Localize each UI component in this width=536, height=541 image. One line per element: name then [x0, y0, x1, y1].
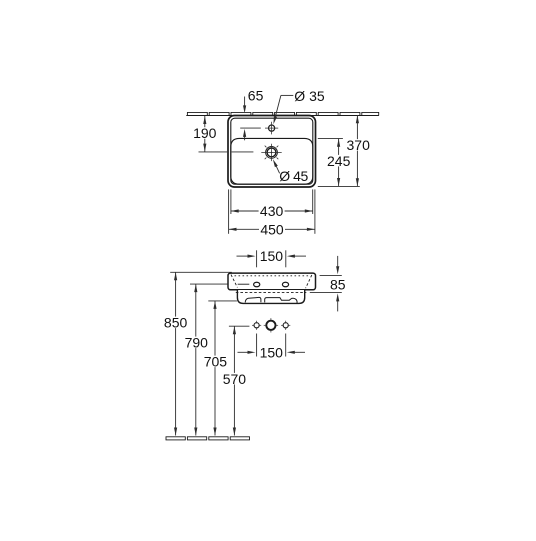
tap hole crosshair: [265, 127, 278, 129]
dimension 150 (mounting holes): [256, 334, 258, 357]
hidden underside line: [236, 291, 306, 293]
drain circle: [267, 148, 276, 157]
svg-text:Ø 45: Ø 45: [279, 168, 308, 184]
svg-text:430: 430: [260, 203, 284, 219]
bowl outline: [231, 138, 313, 184]
svg-text:65: 65: [248, 88, 264, 104]
dimension 450: [229, 228, 315, 230]
mounting hole right: [283, 323, 288, 328]
mounting hole center crosshair: [264, 324, 266, 326]
label Ø 35 leader: [281, 94, 293, 96]
tap hole extension line: [240, 127, 261, 129]
wall line (top view): [186, 115, 379, 117]
siphon tab left: [245, 297, 261, 302]
basin inner rim edge: [231, 118, 313, 184]
drain extension line: [199, 151, 228, 153]
siphon tab right: [265, 298, 297, 304]
dimension 370: [356, 115, 358, 186]
drain crosshair: [261, 151, 281, 153]
dimension 705: [214, 301, 216, 436]
extension line at underbody bottom (705): [208, 300, 237, 302]
svg-text:190: 190: [193, 125, 217, 141]
drain diagonal tick marks: [277, 158, 279, 160]
svg-text:705: 705: [204, 353, 228, 369]
svg-text:150: 150: [260, 345, 284, 361]
extension line at fixing hole level (790): [190, 283, 228, 285]
svg-text:850: 850: [164, 314, 188, 330]
mounting hole right crosshair: [281, 324, 284, 326]
tap hole circle: [269, 125, 275, 131]
drain center dot: [271, 152, 273, 154]
svg-text:450: 450: [260, 222, 284, 238]
extension line at rim top (850): [170, 271, 232, 273]
floor line: [166, 437, 185, 440]
dimension 85: [320, 274, 342, 276]
svg-text:85: 85: [330, 277, 346, 293]
dimension 430: [231, 210, 313, 212]
drain outer circle: [266, 147, 278, 159]
extension line at bowl rear edge: [318, 137, 343, 139]
fixing hole left (front): [254, 282, 260, 287]
front rim box: [228, 273, 316, 290]
front hidden taper right: [306, 275, 312, 288]
right extension lines below basin: [314, 189, 316, 233]
label Ø 45 leader: [273, 159, 278, 167]
basin outer rim (top view): [228, 116, 316, 188]
svg-text:150: 150: [260, 248, 284, 264]
mounting hole center: [266, 321, 275, 330]
left extension lines below basin: [228, 189, 230, 233]
front hidden taper left: [231, 275, 237, 288]
mounting hole left: [254, 323, 259, 328]
svg-text:570: 570: [223, 371, 247, 387]
svg-text:370: 370: [347, 137, 371, 153]
fixing hole right (front): [282, 282, 288, 287]
extension line at mounting holes (570): [229, 325, 250, 327]
dimension 850: [175, 272, 177, 435]
svg-text:790: 790: [185, 334, 209, 350]
dimension 190: [204, 116, 206, 152]
dimension 790: [195, 284, 197, 435]
extension line at basin front edge: [318, 185, 360, 187]
front rim dotted inner edge: [235, 275, 310, 277]
svg-text:245: 245: [327, 153, 351, 169]
front overflow line: [238, 283, 250, 285]
underbody outline: [237, 290, 304, 303]
dimension 570: [233, 326, 235, 435]
dimension 245: [338, 139, 340, 186]
svg-text:Ø 35: Ø 35: [294, 88, 325, 104]
dimension 150 (fixing holes front): [256, 250, 258, 267]
mounting hole left crosshair: [252, 324, 255, 326]
